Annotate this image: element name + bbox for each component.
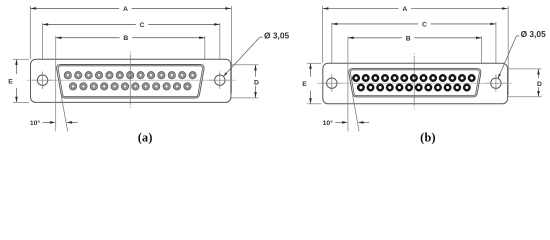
centerline tick over middle pin b bbox=[413, 76, 415, 80]
svg-text:A: A bbox=[123, 6, 128, 13]
dim E b bbox=[302, 63, 321, 104]
pin 21 a bbox=[142, 83, 149, 90]
vertical centerline a bbox=[129, 51, 131, 52]
D-sub insert inner outline a bbox=[58, 66, 202, 97]
pin 9 a bbox=[147, 72, 154, 79]
horizontal centerline a bbox=[27, 79, 236, 81]
dim D b bbox=[481, 69, 542, 97]
insert centerline a bbox=[59, 79, 202, 81]
leader line with diameter callout a bbox=[224, 37, 263, 76]
pin 7 a bbox=[127, 72, 134, 79]
pin 20 a bbox=[132, 83, 139, 90]
pin 25 a bbox=[184, 83, 191, 90]
pin 8 a bbox=[137, 72, 144, 79]
D-sub insert outline a bbox=[57, 65, 204, 99]
dim C a bbox=[43, 22, 220, 89]
pin 22 a bbox=[153, 83, 160, 90]
pin 12 b bbox=[458, 74, 466, 82]
svg-text:(a): (a) bbox=[138, 130, 153, 144]
pin 13 b bbox=[468, 74, 476, 82]
pin 16 a bbox=[90, 83, 97, 90]
dim A b bbox=[323, 6, 509, 95]
pin 19 b bbox=[405, 84, 413, 92]
pin 7 b bbox=[410, 74, 418, 82]
svg-text:C: C bbox=[140, 22, 145, 29]
pin 5 a bbox=[106, 72, 113, 79]
svg-text:D: D bbox=[537, 81, 542, 88]
svg-text:C: C bbox=[422, 21, 427, 28]
svg-text:Ø 3,05: Ø 3,05 bbox=[521, 29, 546, 39]
dim A a bbox=[30, 6, 231, 93]
pin 1 b bbox=[352, 74, 360, 82]
D-sub insert outline b bbox=[349, 69, 481, 97]
mounting hole left b bbox=[321, 75, 342, 92]
pin 19 a bbox=[121, 83, 128, 90]
vertical centerline b bbox=[413, 53, 415, 54]
pin 11 b bbox=[449, 74, 457, 82]
svg-text:B: B bbox=[406, 35, 411, 42]
pin 10 a bbox=[158, 72, 165, 79]
pin 2 a bbox=[75, 72, 82, 79]
pin 8 b bbox=[420, 74, 428, 82]
pin 17 a bbox=[101, 83, 108, 90]
pin 13 a bbox=[189, 72, 196, 79]
pin 4 a bbox=[95, 72, 102, 79]
pin 3 a bbox=[85, 72, 92, 79]
leader line with diameter callout b bbox=[498, 36, 519, 78]
10deg slant line (wall extension) a bbox=[61, 97, 67, 132]
10deg label and arrows a bbox=[30, 119, 78, 127]
svg-text:10°: 10° bbox=[323, 119, 334, 127]
flange a bbox=[31, 59, 231, 102]
pin 1 a bbox=[64, 72, 71, 79]
pin 21 b bbox=[425, 84, 433, 92]
mounting hole left a bbox=[32, 72, 53, 89]
pin 18 a bbox=[111, 83, 118, 90]
svg-text:B: B bbox=[123, 35, 128, 42]
svg-text:E: E bbox=[8, 78, 13, 85]
pin 23 a bbox=[163, 83, 170, 90]
pin 2 b bbox=[362, 74, 370, 82]
pin 6 b bbox=[400, 74, 408, 82]
pin 3 b bbox=[372, 74, 380, 82]
pin 6 a bbox=[116, 72, 123, 79]
pin 16 b bbox=[376, 84, 384, 92]
svg-text:A: A bbox=[402, 6, 407, 13]
svg-text:10°: 10° bbox=[30, 119, 41, 127]
pin 11 a bbox=[168, 72, 175, 79]
dim D a bbox=[202, 65, 259, 98]
insert centerline b bbox=[351, 82, 479, 84]
pin 14 b bbox=[357, 84, 365, 92]
10deg slant line (wall extension) b bbox=[353, 95, 360, 131]
svg-text:Ø 3,05: Ø 3,05 bbox=[264, 30, 289, 40]
flange b bbox=[323, 63, 508, 104]
pin 15 b bbox=[367, 84, 375, 92]
pin 5 b bbox=[391, 74, 399, 82]
pin 22 b bbox=[434, 84, 442, 92]
dim B b bbox=[348, 35, 482, 68]
mounting hole right a bbox=[209, 72, 230, 89]
pin 12 a bbox=[179, 72, 186, 79]
pin 15 a bbox=[80, 83, 87, 90]
dim B a bbox=[56, 35, 205, 64]
10deg label and arrows b bbox=[323, 119, 369, 127]
pin 4 b bbox=[381, 74, 389, 82]
pin 14 a bbox=[69, 83, 76, 90]
10deg reference vertical line b bbox=[347, 36, 349, 131]
svg-text:(b): (b) bbox=[420, 130, 436, 144]
mounting hole right b bbox=[485, 75, 506, 92]
pin 25 b bbox=[463, 84, 471, 92]
pin 23 b bbox=[444, 84, 452, 92]
pin 9 b bbox=[429, 74, 437, 82]
pin 10 b bbox=[439, 74, 447, 82]
dim E a bbox=[8, 59, 29, 102]
svg-text:E: E bbox=[302, 81, 307, 88]
pin 24 a bbox=[173, 83, 180, 90]
horizontal centerline b bbox=[317, 82, 512, 84]
pin 17 b bbox=[386, 84, 394, 92]
10deg reference vertical line a bbox=[55, 36, 57, 131]
svg-text:D: D bbox=[254, 80, 259, 87]
pin 24 b bbox=[453, 84, 461, 92]
dim C b bbox=[332, 21, 496, 91]
pin 18 b bbox=[396, 84, 404, 92]
D-sub insert inner outline b bbox=[350, 70, 479, 96]
pin 20 b bbox=[415, 84, 423, 92]
